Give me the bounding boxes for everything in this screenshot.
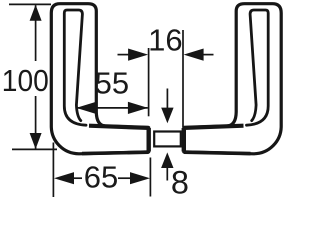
svg-text:8: 8	[171, 165, 189, 199]
svg-text:100: 100	[2, 63, 49, 98]
svg-text:55: 55	[95, 66, 129, 101]
svg-text:65: 65	[84, 159, 118, 194]
svg-text:16: 16	[148, 22, 182, 57]
